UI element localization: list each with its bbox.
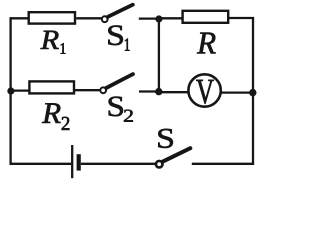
label R (197, 33, 216, 54)
wire: top-left, frame to R1 (10, 17, 29, 19)
label R2 (42, 103, 69, 130)
node A (top junction) (155, 15, 162, 22)
wire: R to right frame (228, 17, 254, 19)
wire: left frame vertical (9, 17, 11, 165)
wire: S to bottom-right frame (192, 163, 254, 165)
switch S2 (100, 74, 133, 93)
resistor R1 (29, 12, 75, 23)
wire: R2 to S2 (75, 89, 100, 91)
wire: right frame vertical (252, 17, 254, 165)
wire: battery to S (81, 163, 156, 165)
label S1 (108, 26, 129, 51)
wire: node A to R (159, 17, 183, 19)
wire: bottom-left, frame to battery (10, 163, 72, 165)
wire: node C to voltmeter (159, 91, 188, 93)
node D (right frame, middle row) (249, 89, 256, 96)
wire: S2 to node C (139, 90, 159, 92)
wire: voltmeter to node D (222, 91, 254, 93)
wire: node A to node C vertical (158, 19, 160, 92)
switch S (156, 148, 190, 167)
label S2 (109, 97, 133, 122)
wire: S1 to node A (139, 17, 159, 19)
resistor R2 (29, 81, 74, 93)
wire: node B to R2 (11, 89, 30, 91)
wire: R1 to S1 (76, 17, 101, 19)
voltmeter V (188, 74, 220, 106)
label R1 (40, 31, 65, 54)
resistor R (183, 11, 229, 23)
node C (middle junction) (155, 88, 162, 95)
switch S1 (102, 5, 133, 22)
battery (cell) (72, 145, 79, 178)
label S (158, 129, 173, 148)
node B (left frame, middle row) (7, 87, 14, 94)
